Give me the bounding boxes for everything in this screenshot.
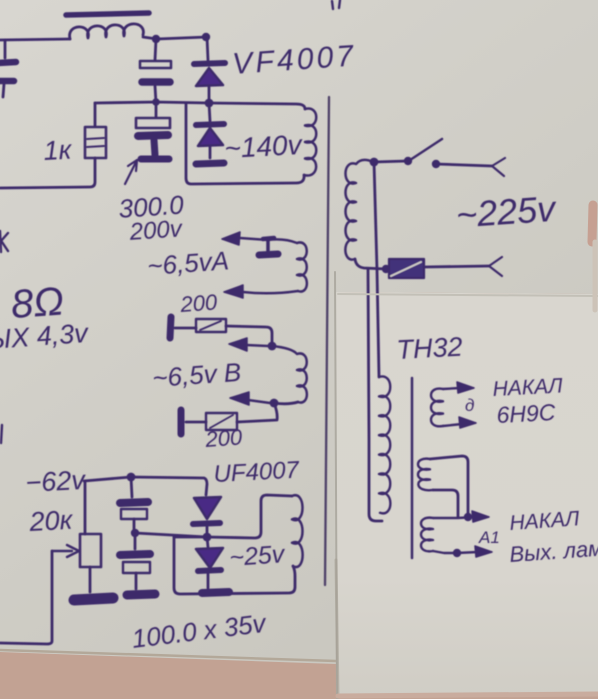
svg-text:~25v: ~25v [228, 540, 286, 572]
transformer T1 core line [325, 97, 329, 585]
bottom right pink sliver [338, 694, 598, 696]
node junction at D1 top [202, 33, 210, 41]
arrow left from node D [246, 345, 268, 346]
svg-text:~6,5vА: ~6,5vА [146, 245, 230, 281]
wire S1 top with arrow [443, 388, 460, 389]
inductor L1 [70, 24, 144, 39]
svg-text:~6,5v В: ~6,5v В [151, 357, 242, 393]
TH32 secondary S1 (6N9S heater) [431, 389, 443, 427]
node G (D3/D4 junction) [203, 533, 212, 542]
svg-text:6Н9С: 6Н9С [496, 399, 556, 428]
wire P1 bottom to fuse [355, 259, 386, 269]
capacitor C5 100.0 [134, 533, 137, 549]
top edge cut-off mark [332, 0, 340, 9]
wire node E down to R3 [237, 403, 277, 422]
TH32 secondary S3 [421, 518, 433, 552]
pot wiper arrow [52, 550, 72, 552]
right edge pink sliver [592, 205, 593, 242]
wire S3 bottom arrow row [433, 551, 478, 553]
wire T1 to R2 [175, 327, 196, 330]
resistor R3 200 [206, 413, 237, 430]
diode D1 VF4007 [207, 37, 208, 60]
winding W140 loop wire [209, 103, 305, 109]
ground bar G1 [74, 598, 113, 600]
svg-text:−62v: −62v [25, 465, 87, 498]
right bottom paper sheet [336, 292, 598, 698]
switch S1 [370, 158, 379, 167]
node D [268, 342, 277, 351]
wire S1 bottom with arrow [443, 424, 462, 426]
capacitor C1 [155, 39, 156, 60]
node B (D1/D2 junction) [205, 99, 214, 108]
svg-text:200: 200 [179, 289, 219, 317]
wire node B left to R1 top [95, 102, 209, 103]
node A1 junction [464, 513, 472, 521]
right sheets horizontal edge [338, 294, 598, 296]
wire L1 to node A [143, 37, 207, 39]
resistor R2 200 [196, 319, 226, 332]
node junction at C1 top [152, 35, 160, 43]
wire WA bottom with arrow left [243, 291, 298, 293]
resistor R1 1k [94, 103, 97, 126]
terminal bar T2 [178, 410, 185, 434]
svg-text:200v: 200v [128, 215, 185, 246]
left edge mark [0, 231, 8, 252]
wire WB bottom to node E [274, 402, 298, 404]
node fuse left [382, 265, 390, 273]
sheet gap vertical [335, 272, 337, 698]
node C4 top [127, 473, 136, 482]
svg-text:1к: 1к [43, 135, 74, 166]
TH32 primary winding [379, 376, 390, 513]
svg-text:НАКАЛ: НАКАЛ [492, 374, 564, 401]
capacitor C0 at left edge [4, 40, 7, 58]
TH32 secondary S2 [418, 459, 433, 491]
wire S2 bottom right and down [433, 490, 458, 517]
pot bottom lead [89, 567, 92, 592]
wire R2 to node D [226, 326, 272, 345]
svg-text:~225v: ~225v [455, 188, 559, 236]
svg-text:200: 200 [204, 424, 244, 452]
wire node G right and up to W25 [207, 495, 292, 538]
wire -62v down to pot [84, 482, 87, 534]
winding W140 [304, 108, 316, 175]
arrow to C2 [125, 160, 137, 184]
svg-text:ТН32: ТН32 [396, 332, 464, 365]
node S3 bottom [453, 549, 461, 557]
diode D4 [207, 537, 208, 547]
node F (C4 bottom) [131, 529, 139, 537]
wire -62v rail [84, 477, 207, 495]
diode D3 [194, 497, 221, 519]
node C1-C2 junction [152, 98, 160, 106]
capacitor C4 100.0 [131, 477, 132, 497]
svg-text:А1: А1 [478, 528, 500, 547]
center tap of WA [266, 240, 270, 252]
capacitor C2 300.0 [155, 103, 158, 117]
fuse F1 [389, 259, 424, 278]
svg-text:д: д [465, 396, 474, 415]
diode D2 [209, 103, 210, 121]
inductor L1 core bar [66, 13, 149, 15]
left sheet bottom edge shadow [0, 650, 336, 661]
left edge small mark [1, 425, 2, 443]
wire top left [0, 39, 70, 40]
winding WA 6.5v A [297, 242, 307, 291]
wire S3 top arrow row [433, 517, 475, 518]
wire switch node down to TH32 primary [374, 162, 379, 377]
wire node F to node G [135, 533, 207, 537]
potentiometer R4 20k body [80, 534, 101, 567]
wire S2 top right and down [430, 456, 468, 517]
terminal bar T1 [170, 317, 171, 338]
wire joining node F rail [174, 536, 207, 539]
primary winding P1 [345, 160, 373, 260]
wire WA top with arrow left [240, 238, 297, 243]
paper edge shadows [0, 205, 598, 698]
svg-text:НАКАЛ: НАКАЛ [509, 507, 581, 535]
winding WB 6.5v B [272, 346, 307, 403]
wire W140 bottom to loop left [186, 103, 304, 184]
svg-text:~140v: ~140v [224, 129, 305, 164]
wire R3 to T2 [186, 421, 206, 424]
node E (WB bottom) [270, 399, 279, 408]
arrow left from node E [248, 400, 270, 403]
TH32 core line [411, 378, 414, 558]
winding W25 [292, 495, 303, 567]
svg-text:UF4007: UF4007 [213, 456, 301, 488]
wire W25 bottom loop [174, 537, 295, 594]
wire fuse row down to TH32 left side [368, 269, 382, 521]
svg-text:20к: 20к [28, 505, 75, 537]
wire wiper down-left [0, 551, 52, 644]
